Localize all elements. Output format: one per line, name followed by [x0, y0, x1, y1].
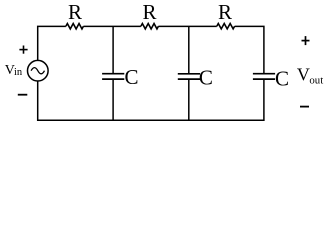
wire: C1 down to bottom rail	[112, 79, 114, 120]
svg-text:out: out	[309, 74, 323, 86]
svg-text:C: C	[125, 65, 139, 89]
AC source V1 circle	[28, 60, 49, 81]
wire: left vertical above source, top rail with resistor gaps, right vertical to C3	[38, 26, 264, 73]
svg-text:C: C	[199, 65, 213, 89]
minus sign at source	[18, 94, 28, 96]
capacitor C2	[178, 74, 200, 79]
node A stub: top rail down to C1	[112, 26, 114, 73]
wire: C2 down to bottom rail	[188, 79, 190, 120]
wire: bottom rail with left and right verticals	[38, 79, 264, 120]
minus sign at output	[300, 106, 309, 108]
plus sign at source	[19, 46, 27, 54]
svg-text:V: V	[297, 64, 310, 84]
svg-text:R: R	[218, 0, 232, 24]
plus sign at output	[302, 36, 310, 45]
resistor R1	[66, 24, 84, 29]
svg-text:R: R	[143, 0, 157, 24]
svg-text:R: R	[68, 0, 82, 24]
AC source sine wave	[31, 68, 44, 74]
resistor R2	[141, 24, 159, 29]
capacitor C1	[102, 74, 124, 79]
resistor R3	[217, 24, 235, 29]
node B stub: top rail down to C2	[188, 26, 190, 73]
capacitor C3	[253, 74, 275, 79]
svg-text:in: in	[14, 67, 23, 78]
svg-text:C: C	[275, 67, 289, 91]
